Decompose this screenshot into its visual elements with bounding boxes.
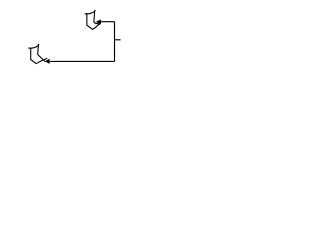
- arrowhead A1 (into top loop): [96, 19, 101, 24]
- arrowhead A2 (into bottom loop): [45, 59, 50, 64]
- loop L1 (top wire loop: nose, top arc, peak curl, down stroke, tail under arrow): [85, 10, 100, 24]
- wire W4 (bottom horizontal): [50, 60, 115, 62]
- wire W1 (top horizontal): [101, 21, 115, 23]
- loop L2 (left vertical, V bottom, rising tail): [31, 48, 47, 64]
- loop L1 (left vertical, V bottom, rising tail to arrow base): [87, 14, 101, 30]
- loop L2 (bottom wire loop: nose, top arc, peak curl, down stroke, tail under arrow): [29, 44, 45, 61]
- wire W2 (right vertical): [114, 22, 116, 62]
- stub W3 (tap on right vertical): [115, 39, 121, 41]
